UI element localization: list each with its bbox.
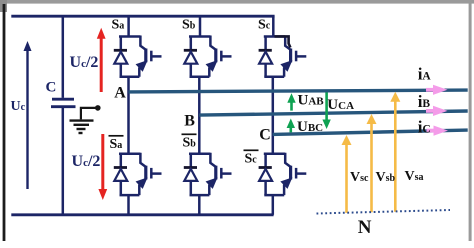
svg-text:Sc: Sc [258, 17, 271, 32]
svg-text:C: C [46, 80, 57, 96]
svg-text:UAB: UAB [298, 92, 325, 108]
svg-text:C: C [259, 126, 271, 143]
svg-text:UBC: UBC [297, 119, 323, 135]
svg-text:N: N [358, 217, 372, 238]
svg-text:Sb: Sb [183, 135, 197, 150]
svg-text:Sc: Sc [245, 151, 258, 166]
svg-text:Vsc: Vsc [350, 170, 369, 185]
svg-text:Uc: Uc [11, 99, 26, 114]
svg-text:Sa: Sa [110, 137, 123, 152]
svg-text:A: A [114, 84, 126, 101]
svg-text:Vsa: Vsa [405, 169, 424, 184]
svg-text:B: B [184, 112, 195, 129]
svg-text:UCA: UCA [327, 97, 354, 113]
svg-text:Sb: Sb [182, 17, 196, 32]
svg-text:Sa: Sa [112, 18, 125, 33]
svg-text:Vsb: Vsb [376, 170, 396, 185]
